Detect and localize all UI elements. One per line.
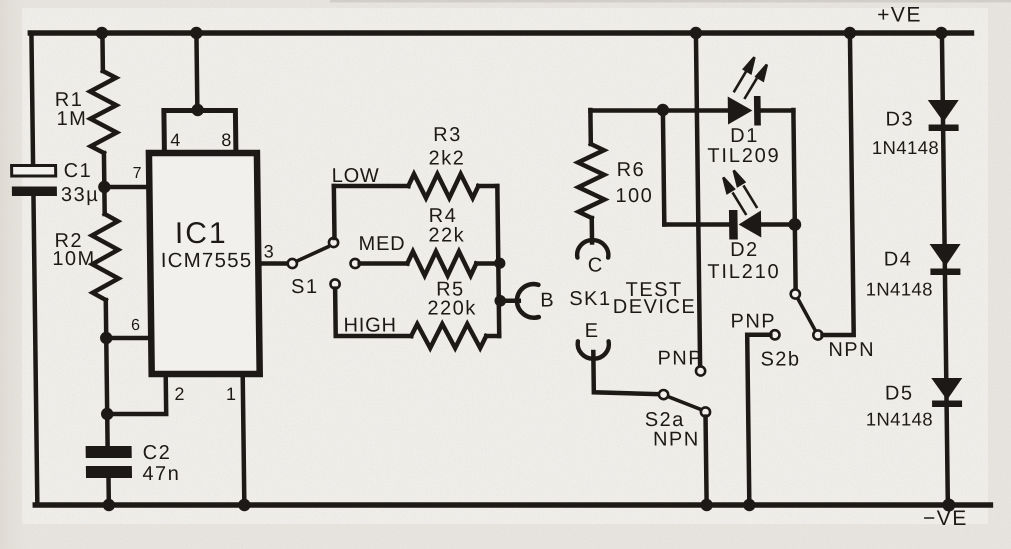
node junction pin2 wire xyxy=(101,408,114,420)
svg-text:S1: S1 xyxy=(291,276,319,298)
wire pin 2 to node xyxy=(107,374,167,414)
wire D2 to right node xyxy=(761,222,795,227)
wire R2 to node pin6 xyxy=(104,300,109,338)
wire node pin6 down to C2 xyxy=(106,338,107,447)
svg-text:1N4148: 1N4148 xyxy=(865,279,932,300)
svg-text:C2: C2 xyxy=(143,442,172,464)
svg-text:33µ: 33µ xyxy=(61,184,100,206)
svg-text:NPN: NPN xyxy=(828,339,875,361)
wire top rail to R1 xyxy=(100,33,105,71)
resistor R1 xyxy=(90,71,117,153)
svg-text:D3: D3 xyxy=(885,109,914,131)
diode D3 triangle xyxy=(928,100,959,122)
switch S2a PNP contact xyxy=(696,366,705,375)
resistor R6 xyxy=(578,144,605,218)
wire pin 3 stub xyxy=(258,261,288,266)
switch S1 blade xyxy=(296,246,330,261)
wire -VE bottom rail xyxy=(35,502,990,508)
wire D2 node down to S2b xyxy=(793,228,798,290)
wire D1 row xyxy=(590,108,728,113)
svg-text:TIL209: TIL209 xyxy=(707,145,780,167)
node S2b riser top rail xyxy=(844,27,857,39)
capacitor C1 (bottom plate) xyxy=(12,187,57,197)
svg-text:LOW: LOW xyxy=(332,165,380,187)
wire R1 to node pin7 xyxy=(102,153,107,187)
svg-text:D1: D1 xyxy=(730,125,759,147)
wire +VE rail to S2a PNP contact xyxy=(696,33,700,366)
wire LOW contact up xyxy=(332,186,337,238)
svg-text:3: 3 xyxy=(264,242,274,262)
switch S1 HIGH contact xyxy=(330,279,339,288)
node D chain bottom rail xyxy=(942,499,955,512)
wire D2 row left xyxy=(663,110,664,225)
switch S2a blade xyxy=(668,397,701,410)
svg-text:R6: R6 xyxy=(616,159,645,181)
svg-text:ICM7555: ICM7555 xyxy=(161,249,253,272)
node D1 row / D2 branch xyxy=(657,104,670,116)
wire S2b pole to +VE riser xyxy=(819,33,854,335)
wire D2 row xyxy=(664,222,730,227)
resistor R2 xyxy=(92,214,119,300)
switch S1 pole contact xyxy=(288,259,297,268)
svg-text:2k2: 2k2 xyxy=(428,148,465,170)
svg-text:SK1: SK1 xyxy=(569,288,612,310)
node S2a riser top rail xyxy=(690,27,703,39)
capacitor C2 (top plate) xyxy=(86,446,132,458)
wire S2b PNP contact to -VE xyxy=(747,335,772,505)
wire +VE top rail xyxy=(30,30,971,36)
diode D4 triangle xyxy=(930,244,961,267)
svg-text:HIGH: HIGH xyxy=(343,315,396,337)
wire R4 to bus xyxy=(476,261,498,266)
svg-text:47n: 47n xyxy=(142,463,180,485)
svg-text:1N4148: 1N4148 xyxy=(872,137,939,158)
wire R5 to bus xyxy=(486,334,499,339)
svg-text:TIL210: TIL210 xyxy=(707,261,780,283)
wire top rail to pins 4/8 xyxy=(194,33,199,110)
node pin1 bottom rail xyxy=(238,499,251,511)
svg-text:R3: R3 xyxy=(433,124,462,146)
switch S1 LOW contact xyxy=(329,238,338,247)
wire D1 to right corner xyxy=(760,108,793,113)
svg-text:MED: MED xyxy=(358,233,405,255)
node junction R2/pin6 xyxy=(100,332,113,344)
wire D1 row left to R6 top xyxy=(588,110,593,144)
page top edge artifact xyxy=(330,0,1011,3)
node top rail IC supply xyxy=(190,27,203,39)
diode D5 triangle xyxy=(931,378,962,400)
node R1 top rail xyxy=(96,27,109,39)
terminal B socket xyxy=(517,284,539,318)
node R4 bus junction xyxy=(494,258,505,269)
svg-text:D2: D2 xyxy=(730,239,759,261)
wire LOW row to R3 xyxy=(334,184,409,189)
node D chain top rail xyxy=(935,27,948,39)
svg-text:1N4148: 1N4148 xyxy=(866,409,933,430)
wire HIGH contact down xyxy=(335,289,411,336)
wire C1 bottom to -VE rail xyxy=(33,194,37,505)
svg-text:D5: D5 xyxy=(885,383,914,405)
svg-text:1M: 1M xyxy=(56,108,87,130)
svg-text:D4: D4 xyxy=(884,249,913,271)
wire +VE to D3/D4/D5 chain xyxy=(942,33,948,505)
node pins 4/8 tie xyxy=(191,104,204,116)
capacitor C1 (electrolytic, top plate) xyxy=(12,166,56,177)
wire S2a pole to -VE rail xyxy=(706,417,707,505)
switch S2b NPN pole xyxy=(813,330,822,339)
switch S2a pole xyxy=(701,407,710,416)
svg-text:22k: 22k xyxy=(428,225,465,247)
node junction R1/R2/pin7 xyxy=(98,181,111,193)
svg-text:C: C xyxy=(588,255,604,277)
node S2b PNP bottom rail xyxy=(743,499,756,511)
LED D1 triangle xyxy=(728,97,753,125)
svg-text:S2b: S2b xyxy=(760,349,800,371)
svg-text:PNP: PNP xyxy=(657,348,703,370)
svg-text:8: 8 xyxy=(221,130,231,150)
wire pin 6 to IC1 xyxy=(106,336,150,341)
svg-text:1: 1 xyxy=(226,384,236,404)
svg-text:NPN: NPN xyxy=(653,429,700,451)
switch S1 MED contact xyxy=(350,259,359,268)
node S2a bottom rail xyxy=(700,499,713,511)
wire left vertical (top rail to C1) xyxy=(31,33,33,166)
wire MED to R4 xyxy=(360,261,408,266)
svg-text:2: 2 xyxy=(174,384,184,404)
wire R3 to bus xyxy=(478,184,497,189)
diode D5 cathode bar xyxy=(932,401,962,408)
LED D2 cathode bar xyxy=(729,210,738,240)
svg-text:10M: 10M xyxy=(52,248,96,270)
resistor R5 xyxy=(411,324,486,348)
svg-text:4: 4 xyxy=(170,130,180,150)
wire selector bus xyxy=(497,186,499,336)
resistor R2 lead top xyxy=(102,187,107,214)
svg-text:B: B xyxy=(540,290,555,312)
resistor R3 xyxy=(408,174,478,198)
node D2 row right junction xyxy=(788,218,801,231)
svg-text:7: 7 xyxy=(133,165,142,182)
switch S2b PNP contact xyxy=(770,330,779,339)
svg-text:+VE: +VE xyxy=(877,4,922,27)
wire C2 to -VE rail xyxy=(106,478,111,505)
svg-text:E: E xyxy=(585,320,600,342)
capacitor C2 (bottom plate) xyxy=(86,466,132,478)
svg-text:IC1: IC1 xyxy=(175,217,228,250)
switch S2b blade xyxy=(798,298,816,331)
switch S2b top contact xyxy=(791,289,800,298)
diode D4 cathode bar xyxy=(930,269,960,276)
op-amp / timer IC1 body xyxy=(149,153,260,374)
node B tap junction xyxy=(494,295,506,307)
svg-text:DEVICE: DEVICE xyxy=(613,296,697,318)
svg-text:PNP: PNP xyxy=(730,311,776,333)
wire socket E to S2a contact xyxy=(593,352,659,394)
diode D3 cathode bar xyxy=(929,125,959,132)
LED D2 arrows xyxy=(723,171,757,216)
wire pin 7 to IC1 xyxy=(104,185,148,190)
svg-text:6: 6 xyxy=(131,317,140,334)
socket SK1 contact C xyxy=(577,240,608,258)
wire pin 4/8 bracket xyxy=(164,111,236,154)
wire pin 1 to -VE rail xyxy=(243,374,245,505)
resistor R4 xyxy=(407,252,476,276)
wire B stub xyxy=(500,299,519,304)
wire R6 to socket C xyxy=(589,218,594,243)
svg-text:100: 100 xyxy=(615,185,653,207)
wire D1/D2 right link xyxy=(793,110,794,225)
LED D1 arrows xyxy=(733,57,767,99)
LED D1 cathode bar xyxy=(754,96,761,126)
socket SK1 contact E xyxy=(578,341,609,359)
LED D2 triangle xyxy=(738,211,761,238)
node C2 bottom rail xyxy=(103,499,116,511)
switch S2a NPN contact xyxy=(659,390,668,399)
svg-text:220k: 220k xyxy=(427,298,477,320)
svg-text:C1: C1 xyxy=(64,160,93,182)
